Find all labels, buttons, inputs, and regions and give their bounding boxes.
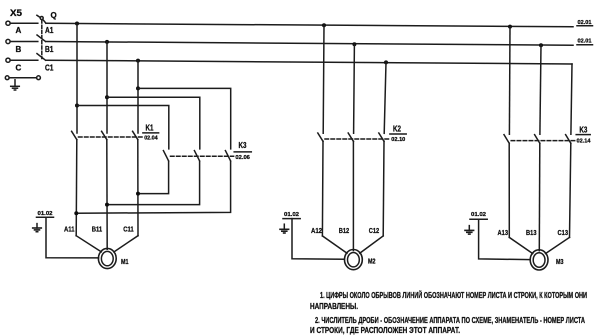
terminal X5:3 (phase C): [6, 58, 10, 62]
svg-text:02.04: 02.04: [144, 135, 158, 141]
contactor K3 pole 1 contact: [504, 135, 509, 144]
wire K1 pole1 out to motor M1 (A11): [75, 140, 78, 236]
terminal X5:4 (PE left): [5, 76, 9, 80]
svg-text:02.01: 02.01: [578, 39, 593, 45]
motor M1: [98, 248, 116, 268]
svg-text:01.02: 01.02: [38, 211, 53, 217]
wire M1 frame to ground ref: [46, 217, 99, 258]
contactor K3 reference label K3/02.06: [234, 141, 251, 161]
bus A1: [46, 23, 573, 27]
contactor K2 pole 2 contact: [348, 133, 353, 141]
wire crossover B to K3 pole2: [107, 97, 200, 149]
junction bus B / M3 phase: [539, 43, 543, 47]
svg-text:K3: K3: [579, 125, 587, 134]
contactor K3 pole 3 contact: [566, 135, 571, 144]
svg-text:A11: A11: [64, 224, 75, 233]
junction bus C / M1 phase: [136, 59, 140, 63]
svg-text:C11: C11: [123, 224, 134, 233]
svg-text:B12: B12: [339, 226, 350, 235]
svg-text:M2: M2: [368, 257, 376, 266]
svg-text:A13: A13: [498, 228, 509, 237]
svg-text:Q: Q: [51, 11, 57, 20]
svg-text:A: A: [16, 26, 22, 35]
motor M2: [345, 250, 363, 270]
junction bus C / M2 phase: [384, 60, 388, 64]
svg-text:C13: C13: [558, 228, 569, 237]
wire K3 pole3 out to motor M3 (C13): [570, 143, 571, 237]
svg-text:C: C: [16, 64, 22, 73]
off-sheet reference 02.01 (bus A1): [577, 20, 593, 26]
wire K3 pole3 out, swap to A11: [76, 161, 230, 213]
ground symbol M1: [33, 224, 42, 232]
ground symbol M2: [280, 224, 289, 233]
wire K2 pole1 out to motor M2 (A12): [321, 141, 324, 236]
junction swap1 on C11: [136, 192, 140, 196]
svg-text:A1: A1: [45, 26, 54, 35]
junction swap3 on A11: [74, 211, 78, 215]
contactor K3 pole 2 contact: [535, 135, 540, 144]
wire phase C drop to K2: [384, 62, 386, 133]
wire A terminal to switch: [10, 22, 38, 24]
contactor K1 pole 2 contact: [102, 131, 107, 139]
junction bus A / M3 phase: [508, 25, 512, 29]
wire PE link: [9, 77, 36, 79]
wire phase A drop to K3: [508, 27, 511, 135]
contactor K3 linkage (dashed): [511, 140, 575, 142]
off-sheet reference 01.02 (M3 ground): [470, 212, 487, 219]
bus B1: [46, 42, 573, 46]
off-sheet reference 02.01 (bus B1): [577, 39, 593, 45]
wire A13 diagonal into motor: [509, 237, 532, 253]
terminal X5:1 (phase A): [6, 21, 10, 25]
wire phase C drop to K1: [137, 61, 139, 133]
wire C12 diagonal into motor: [360, 236, 383, 253]
svg-text:A12: A12: [311, 226, 322, 235]
svg-text:02.10: 02.10: [391, 137, 405, 143]
junction crossover tap A: [75, 104, 79, 108]
ground symbol M3: [465, 226, 474, 235]
wire C11 diagonal into motor: [114, 236, 138, 252]
svg-text:1. ЦИФРЫ ОКОЛО ОБРЫВОВ ЛИНИЙ О: 1. ЦИФРЫ ОКОЛО ОБРЫВОВ ЛИНИЙ ОБОЗНАЧАЮТ …: [320, 291, 587, 300]
switch Q pole C blade: [37, 54, 46, 61]
bus C1: [46, 60, 572, 64]
switch Q linkage (dashed): [41, 20, 43, 59]
svg-text:C1: C1: [45, 64, 54, 73]
junction bus B / M2 phase: [352, 42, 356, 46]
wire K1 pole3 out to motor M1 (C11): [137, 140, 139, 236]
wire K2 pole2 out to motor M2 (B12): [352, 141, 354, 250]
svg-text:02.06: 02.06: [235, 155, 250, 161]
svg-text:M1: M1: [121, 257, 129, 266]
wire crossover C to K3 pole3: [138, 88, 231, 148]
motor M3: [530, 250, 548, 270]
terminal X5:4 (PE right): [37, 76, 41, 80]
wire A12 diagonal into motor: [322, 236, 347, 253]
contactor K3 pole 2 contact: [194, 151, 199, 161]
contactor K3 (reversing) pole 1 contact: [163, 151, 168, 161]
contactor K2 pole 1 contact: [318, 133, 323, 141]
terminal X5:2 (phase B): [6, 39, 10, 43]
wire K3 pole1 out, swap to C11: [138, 161, 169, 193]
wire C terminal to switch: [10, 59, 38, 61]
wire C13 diagonal into motor: [546, 237, 570, 253]
wire K1 pole2 out to motor M1 (B11): [106, 140, 108, 250]
wire K3 pole2 out, to B11: [107, 161, 200, 204]
wire crossover A to K3 pole1: [77, 106, 169, 149]
svg-text:K3: K3: [239, 141, 247, 150]
contactor K2 pole 3 contact: [379, 133, 384, 141]
svg-text:B: B: [16, 45, 22, 54]
svg-text:K1: K1: [146, 123, 154, 132]
wire M3 frame to ground ref: [479, 219, 530, 259]
junction crossover tap C: [136, 86, 140, 90]
junction crossover tap B: [105, 95, 109, 99]
svg-text:K2: K2: [393, 125, 401, 134]
svg-text:01.02: 01.02: [471, 212, 486, 218]
switch Q pole A (blade with pivot circle): [37, 15, 46, 23]
off-sheet reference 01.02 (M2 ground): [283, 212, 300, 219]
junction bus B / M1 phase: [105, 40, 109, 44]
switch Q pole B blade: [37, 35, 46, 42]
junction bus A / M2 phase: [322, 23, 326, 27]
ground symbol under X5: [11, 80, 20, 90]
wire A11 diagonal into motor: [76, 236, 101, 252]
wire phase B drop to K3: [540, 45, 541, 134]
contactor K1 pole 3 contact: [133, 131, 138, 139]
svg-text:02.14: 02.14: [577, 138, 592, 144]
contactor K1 linkage (dashed): [79, 136, 143, 138]
contactor K1 reference label K1/02.04: [143, 123, 159, 141]
contactor K2 reference label K2/02.10: [390, 125, 406, 143]
svg-text:B11: B11: [92, 224, 103, 233]
junction bus A / M1 phase: [75, 22, 79, 26]
wire K3 pole2 out to motor M3 (B13): [538, 143, 541, 251]
wire phase B drop to K1: [106, 42, 108, 133]
wire M2 frame to ground ref: [292, 219, 344, 260]
svg-text:2. ЧИСЛИТЕЛЬ ДРОБИ - ОБОЗНАЧЕН: 2. ЧИСЛИТЕЛЬ ДРОБИ - ОБОЗНАЧЕНИЕ АППАРАТ…: [315, 316, 585, 325]
contactor K3 reference label K3/02.14: [576, 125, 591, 144]
svg-text:M3: M3: [556, 257, 564, 266]
off-sheet reference 01.02 (M1 ground): [37, 211, 54, 217]
contactor K3 linkage (dashed): [171, 155, 234, 157]
wire phase A drop to K2: [322, 25, 325, 133]
svg-text:02.01: 02.01: [578, 20, 593, 26]
wire K3 pole1 out to motor M3 (A13): [508, 143, 510, 237]
svg-text:B1: B1: [45, 45, 54, 54]
wire bus C corner drop to K3: [571, 64, 572, 134]
wire phase B drop to K2: [353, 44, 356, 133]
contactor K3 pole 3 contact: [225, 151, 230, 161]
svg-text:НАПРАВЛЕНЫ.: НАПРАВЛЕНЫ.: [310, 302, 358, 311]
wire B terminal to switch: [10, 41, 38, 43]
svg-text:B13: B13: [526, 228, 537, 237]
svg-text:X5: X5: [10, 8, 22, 18]
junction swap2 on B11: [105, 203, 109, 207]
svg-text:C12: C12: [369, 226, 380, 235]
svg-text:01.02: 01.02: [284, 212, 299, 218]
wire phase A drop to K1: [76, 24, 78, 134]
wire K2 pole3 out to motor M2 (C12): [382, 141, 385, 236]
contactor K2 linkage (dashed): [325, 138, 389, 140]
contactor K1 pole 1 contact: [72, 131, 77, 139]
svg-text:И СТРОКИ, ГДЕ РАСПОЛОЖЕН ЭТОТ: И СТРОКИ, ГДЕ РАСПОЛОЖЕН ЭТОТ АППАРАТ.: [310, 326, 460, 335]
